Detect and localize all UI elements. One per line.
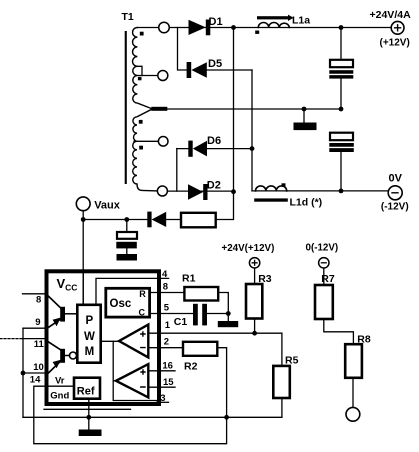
svg-text:D2: D2 [207, 180, 221, 192]
resistor R2 [183, 342, 217, 356]
wire terminal2 row [137, 75, 158, 77]
svg-text:P: P [86, 315, 94, 327]
svg-text:Vr: Vr [55, 376, 65, 387]
terminal T1 sec 3 [158, 137, 168, 147]
transformer T1 phase dot 1 [140, 32, 144, 36]
wire PWM to comparator 1 [101, 340, 119, 342]
diode D1 [189, 20, 206, 35]
svg-text:+24V(+12V): +24V(+12V) [222, 243, 275, 254]
comparator 1 [119, 325, 148, 358]
transformer T1 phase dot 2 [138, 77, 142, 80]
wire R2 to ground loop [34, 348, 227, 444]
terminal T1 sec 1 [159, 22, 170, 33]
oscillator Osc box [106, 288, 150, 317]
wire D5 drop from top rail [178, 28, 187, 71]
svg-text:R3: R3 [258, 273, 272, 285]
transformer T1 core [125, 31, 127, 184]
wire Vaux row [83, 219, 181, 221]
svg-text:8: 8 [163, 282, 168, 293]
svg-text:R5: R5 [285, 355, 299, 367]
terminal T1 sec 2 [158, 71, 168, 81]
wire right column x=341 segments [340, 28, 342, 191]
svg-text:M: M [85, 346, 95, 358]
transformer T1 phase dot 3 [139, 120, 143, 124]
svg-text:0(-12V): 0(-12V) [306, 243, 339, 254]
capacitor output C+ (top) [330, 60, 353, 67]
capacitor output C- (bottom) [330, 133, 353, 141]
resistor R8 [345, 344, 362, 378]
transformer T1 center tap bar [151, 107, 167, 111]
ground stem mid rail [303, 109, 305, 123]
wire terminal3 row [134, 140, 158, 142]
wire D6 drop to terminal4 row [176, 149, 178, 192]
svg-text:R7: R7 [321, 273, 335, 285]
svg-text:R: R [139, 289, 146, 299]
wire D6 row [177, 148, 252, 150]
svg-text:15: 15 [163, 377, 174, 388]
wire D5 anode to column [207, 69, 252, 71]
ground C aux [117, 254, 138, 261]
resistor R aux [181, 213, 216, 228]
reference Ref box [74, 378, 100, 399]
transistor Q2 [60, 349, 65, 363]
ground mid rail [294, 123, 317, 131]
svg-text:R1: R1 [182, 272, 196, 284]
svg-text:(-12V): (-12V) [381, 201, 409, 212]
svg-text:16: 16 [162, 360, 173, 371]
ground IC [79, 430, 102, 437]
inductor L1d [256, 186, 287, 191]
svg-text:9: 9 [35, 317, 40, 328]
svg-text:L1d (*): L1d (*) [290, 197, 323, 209]
svg-text:Vaux: Vaux [94, 199, 121, 211]
wire Vaux stem into IC [82, 211, 84, 304]
svg-text:R8: R8 [357, 334, 371, 346]
svg-text:+24V/4A: +24V/4A [370, 9, 412, 21]
svg-text:11: 11 [34, 339, 45, 350]
PWM block [77, 305, 100, 363]
resistor R5 [281, 333, 283, 417]
wire Vr/Gnd separator pin14 inside [49, 385, 73, 387]
wire rail B ground bus [23, 416, 282, 418]
svg-text:14: 14 [30, 375, 41, 386]
svg-text:8: 8 [36, 295, 41, 306]
diode D2 [188, 184, 203, 200]
svg-text:4: 4 [162, 269, 168, 280]
svg-text:1: 1 [165, 320, 171, 331]
resistor R1 [184, 287, 218, 301]
IC U1 body [47, 271, 160, 404]
transformer T1 secondary winding upper [133, 28, 152, 109]
terminal +24V/4A [391, 21, 404, 34]
wire R1 to C1 junction [218, 293, 228, 322]
terminal 0V [388, 186, 402, 200]
diode D aux [152, 212, 167, 227]
svg-text:C: C [139, 308, 146, 318]
ground C1 [218, 321, 238, 327]
svg-text:D5: D5 [208, 58, 222, 70]
svg-text:10: 10 [33, 362, 44, 373]
inductor L1a [258, 23, 289, 28]
wire left column x=23 [22, 328, 24, 417]
svg-text:Ref: Ref [77, 386, 95, 398]
ground stem IC [88, 400, 90, 430]
wire comparator feedback column inside IC [113, 341, 156, 400]
comparator 2 [116, 364, 148, 397]
svg-text:2: 2 [164, 337, 169, 348]
capacitor C aux [117, 232, 137, 239]
svg-text:5: 5 [164, 303, 170, 314]
transformer T1 tap stub [137, 66, 142, 75]
diode D6 [193, 141, 207, 157]
svg-text:(+12V): (+12V) [380, 37, 410, 48]
wire mid rail (center tap) [152, 108, 341, 110]
wire negative column x=252 [251, 70, 253, 191]
wire R8 to terminal [352, 378, 354, 408]
transformer T1 secondary winding lower [133, 110, 158, 191]
wire top rail [137, 27, 391, 29]
wire terminal4 / D2 row [157, 190, 233, 192]
terminal Vaux [76, 197, 90, 211]
svg-text:D6: D6 [207, 135, 221, 147]
terminal T1 sec 4 [157, 186, 167, 196]
wire L1d row to 0V [252, 190, 388, 192]
capacitor C1 [193, 304, 198, 326]
svg-text:W: W [84, 331, 95, 343]
terminal bottom right [346, 407, 360, 421]
transistor Q1 [60, 307, 65, 322]
svg-text:L1a: L1a [292, 14, 310, 26]
capacitor C aux stem [126, 220, 128, 255]
transformer T1 phase dot 4 [139, 146, 143, 150]
wire pin 4 inside and stub [96, 278, 169, 303]
svg-text:D1: D1 [209, 16, 223, 28]
svg-text:R2: R2 [184, 361, 198, 373]
svg-text:Osc: Osc [110, 298, 132, 310]
diode D5 [191, 62, 206, 78]
svg-text:Gnd: Gnd [50, 391, 69, 402]
svg-text:C1: C1 [174, 316, 188, 328]
svg-text:T1: T1 [122, 11, 134, 23]
wire Vcc column inside IC [82, 270, 84, 304]
svg-text:0V: 0V [389, 173, 403, 185]
wire rectified column x=233.5 [216, 28, 234, 220]
wire rail A below IC [44, 408, 131, 410]
